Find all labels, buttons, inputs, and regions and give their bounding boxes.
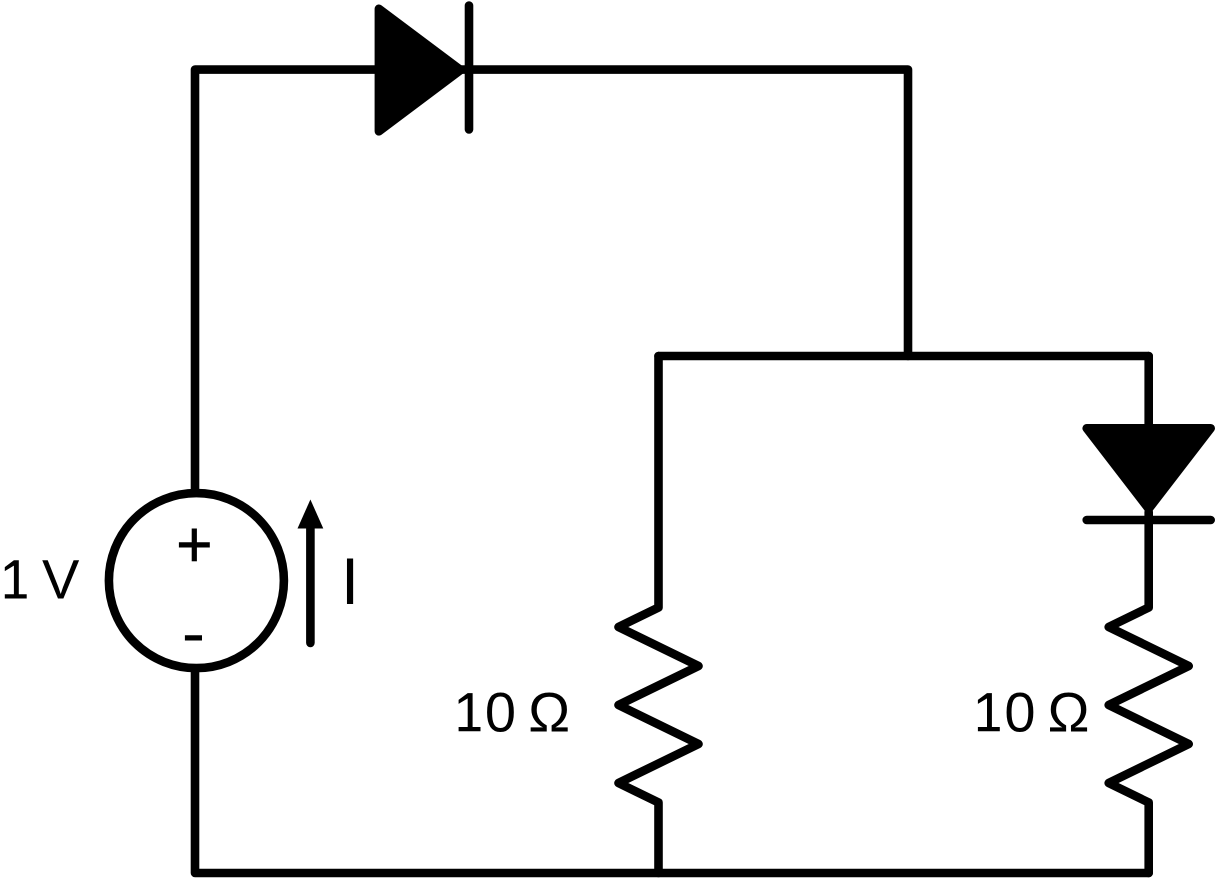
svg-text:I: I xyxy=(341,544,359,618)
svg-text:0: 0 xyxy=(485,680,516,743)
svg-text:V: V xyxy=(42,548,80,611)
svg-text:0: 0 xyxy=(1004,680,1035,743)
svg-text:Ω: Ω xyxy=(1048,680,1090,743)
svg-text:Ω: Ω xyxy=(528,680,570,743)
